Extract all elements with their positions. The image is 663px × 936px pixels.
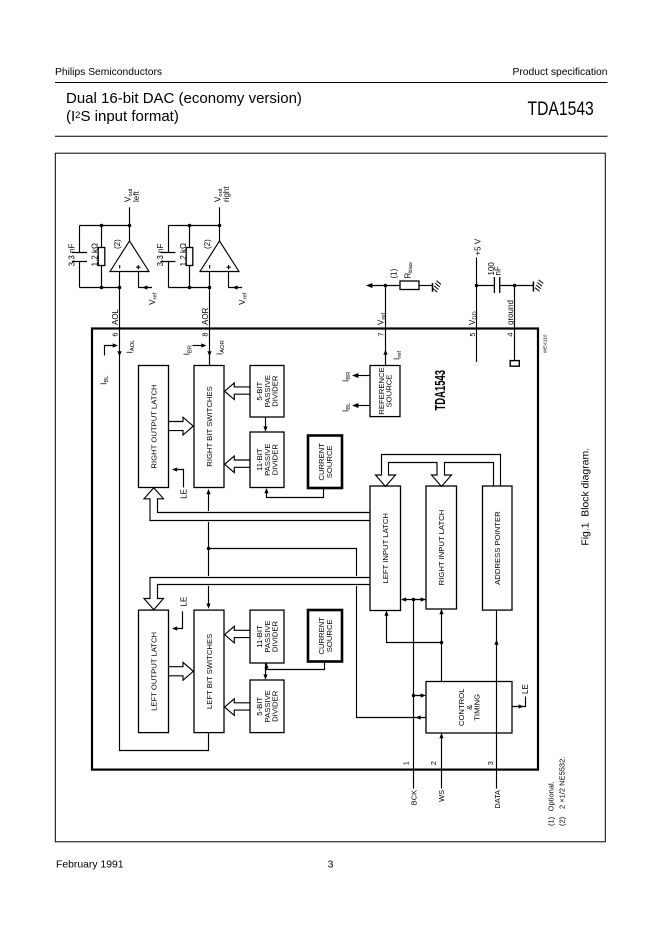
svg-text:RIGHT OUTPUT LATCH: RIGHT OUTPUT LATCH <box>149 384 158 468</box>
op-amp U2 plus sign <box>226 265 230 269</box>
svg-text:(1): (1) <box>390 268 399 278</box>
wire U1 feedback output-side rail <box>80 225 130 227</box>
11-BIT PASSIVE DIVIDER left box <box>250 610 284 663</box>
wire U2 feedback top run with capacitor C2 <box>168 226 170 288</box>
svg-text:Philips Semiconductors: Philips Semiconductors <box>55 67 162 78</box>
wire CURRENT SOURCE left to 11-BIT divider left <box>264 662 324 670</box>
5-BIT PASSIVE DIVIDER right box <box>250 366 284 418</box>
wire CURRENT SOURCE right to 11-BIT divider right <box>264 488 323 498</box>
LEFT OUTPUT LATCH box <box>139 610 169 733</box>
LE hook at RIGHT OUTPUT LATCH <box>172 467 188 498</box>
figure frame <box>55 153 605 842</box>
LEFT INPUT LATCH box <box>370 486 401 611</box>
svg-text:(I2S input format): (I2S input format) <box>66 108 179 125</box>
wire VDD pin 5 to +5V <box>476 258 478 363</box>
svg-text:(2): (2) <box>113 239 122 249</box>
arrow 5-BIT right to 11-BIT right <box>263 417 267 432</box>
arrow into RIGHT INPUT LATCH <box>439 609 443 614</box>
arrow into LEFT BIT SWITCHES <box>206 604 210 609</box>
title rule <box>55 135 608 137</box>
wire U2 output to Vout right <box>219 207 221 241</box>
resistor R1 1.2 kOhm <box>90 226 105 288</box>
wire U2 feedback output-side rail <box>169 225 220 227</box>
junction dot U1 inverting input <box>118 286 122 290</box>
arrow on Vref feed U1 <box>142 285 147 289</box>
bus ADDRESS POINTER to input latches <box>376 455 501 487</box>
op-amp U1 plus sign <box>136 265 140 269</box>
hollow arrow 11-BIT divider left to LEFT BIT SWITCHES <box>225 626 250 643</box>
junction dot BCK latch link <box>412 598 416 602</box>
svg-text:DIVIDER: DIVIDER <box>270 690 279 722</box>
CURRENT SOURCE left box <box>308 610 342 662</box>
11-BIT PASSIVE DIVIDER right box <box>250 432 284 488</box>
wire U2 plus input from Vref <box>229 272 249 305</box>
svg-text:2: 2 <box>429 761 438 765</box>
arrow on AOL wire <box>117 351 121 356</box>
LE hook at LEFT OUTPUT LATCH <box>172 597 188 631</box>
svg-text:3.3 nF: 3.3 nF <box>156 244 165 267</box>
svg-text:nF: nF <box>494 266 503 275</box>
wire VDD branch to decoupling <box>477 285 495 287</box>
junction dot R2 bottom <box>208 286 212 290</box>
external Vref node wire with arrow <box>366 283 400 288</box>
wire U1 output to Vout left <box>129 207 131 241</box>
junction dot R1 bottom <box>100 286 104 290</box>
svg-text:LE: LE <box>179 489 188 499</box>
svg-text:MEA110: MEA110 <box>542 334 548 353</box>
svg-text:LE: LE <box>179 597 188 607</box>
svg-text:AOR: AOR <box>201 307 210 325</box>
arrow on AOR wire <box>207 351 211 356</box>
svg-text:RIGHT BIT SWITCHES: RIGHT BIT SWITCHES <box>205 386 214 466</box>
svg-text:2 ×1/2 NE5532.: 2 ×1/2 NE5532. <box>558 757 567 809</box>
wire below C3 to ground <box>500 285 534 287</box>
op-amp U2 minus sign <box>209 265 211 269</box>
junction dot control-latch <box>440 641 444 645</box>
LE hook at CONTROL <box>512 684 530 708</box>
hollow arrow 11-BIT divider right to RIGHT BIT SWITCHES <box>225 456 250 473</box>
header rule <box>55 82 608 84</box>
svg-text:SOURCE: SOURCE <box>325 445 334 478</box>
IC boundary box TDA1543 <box>92 329 538 770</box>
svg-text:LE: LE <box>521 684 530 694</box>
arrow BCK up into LEFT INPUT LATCH <box>401 597 406 601</box>
svg-text:4: 4 <box>506 332 515 336</box>
RIGHT BIT SWITCHES box <box>194 366 224 488</box>
op-amp U1 minus sign <box>119 265 121 269</box>
wire U1 plus input from Vref <box>139 272 159 305</box>
wire AOR pin 8 line <box>209 272 211 366</box>
IBL arrow from reference source <box>342 402 371 412</box>
arrow Iref <box>383 350 387 355</box>
ground symbol at C3 <box>533 280 543 292</box>
wire BCK pin 1 <box>401 597 426 788</box>
svg-text:DATA: DATA <box>493 790 502 809</box>
arrow out of CONTROL top <box>416 715 421 719</box>
wire ground pin 4 <box>514 286 516 361</box>
substrate box at pin 4 <box>510 361 519 367</box>
svg-text:(2): (2) <box>203 239 212 249</box>
svg-text:WS: WS <box>437 790 446 802</box>
RIGHT INPUT LATCH box <box>426 486 457 609</box>
arrow BCK branch into CONTROL <box>421 693 426 697</box>
junction dot U2 output feedback <box>188 224 192 228</box>
junction dot BCK control branch <box>412 694 416 698</box>
svg-text:LEFT INPUT LATCH: LEFT INPUT LATCH <box>381 513 390 583</box>
arrow into RIGHT BIT SWITCHES <box>206 489 210 494</box>
LEFT BIT SWITCHES box <box>194 610 224 733</box>
hollow arrow 5-BIT divider right to RIGHT BIT SWITCHES <box>225 383 250 400</box>
arrow into LEFT INPUT LATCH <box>384 611 388 616</box>
svg-text:Dual 16-bit DAC (economy versi: Dual 16-bit DAC (economy version) <box>66 90 302 107</box>
capacitor C3 100nF plates <box>494 277 499 293</box>
wire WS pin 2 into CONTROL <box>439 733 443 789</box>
junction dot VDD branch <box>475 284 479 288</box>
svg-text:SOURCE: SOURCE <box>325 619 334 652</box>
svg-text:+5 V: +5 V <box>473 238 482 255</box>
wire Vref pin 7 to reference source with Iref <box>383 286 403 366</box>
wire U1 feedback input-side rail <box>80 287 120 289</box>
svg-text:Product specification: Product specification <box>512 67 607 78</box>
svg-text:TIMING: TIMING <box>472 694 481 721</box>
junction dot R2 top <box>218 224 222 228</box>
IBR injection arrow at pin 8 <box>183 343 207 355</box>
bus LEFT INPUT LATCH to RIGHT OUTPUT LATCH <box>144 488 370 521</box>
svg-text:LEFT OUTPUT LATCH: LEFT OUTPUT LATCH <box>149 632 158 711</box>
op-amp U1 (left channel NE5532) <box>110 239 149 272</box>
resistor Rbias <box>400 262 433 290</box>
RIGHT OUTPUT LATCH box <box>139 366 169 488</box>
capacitor C2 3.3nF plates <box>161 253 176 262</box>
svg-text:AOL: AOL <box>111 308 120 325</box>
svg-text:DIVIDER: DIVIDER <box>270 620 279 652</box>
svg-text:ADDRESS POINTER: ADDRESS POINTER <box>493 511 502 585</box>
svg-text:3: 3 <box>328 859 334 870</box>
arrow 11-BIT left to 5-BIT left <box>263 663 267 680</box>
junction dot on bias link <box>207 547 211 551</box>
wire bit switches bias link <box>206 489 210 609</box>
wire U1 feedback top run with capacitor C1 <box>79 226 81 288</box>
resistor R2 1.2 kOhm <box>179 226 193 288</box>
svg-text:8: 8 <box>201 332 210 336</box>
svg-text:Optional.: Optional. <box>547 781 556 811</box>
arrow BCK down into RIGHT INPUT LATCH <box>421 597 426 601</box>
svg-text:DIVIDER: DIVIDER <box>270 375 279 407</box>
svg-text:1.2 kΩ: 1.2 kΩ <box>90 243 99 266</box>
REFERENCE SOURCE box <box>370 366 400 417</box>
junction dot Vref node <box>384 284 388 288</box>
junction dot U2 inverting input <box>188 286 192 290</box>
wire CONTROL to bit switches link <box>209 549 427 720</box>
IBL injection arrow at pin 6 <box>99 343 118 384</box>
svg-text:LEFT BIT SWITCHES: LEFT BIT SWITCHES <box>205 634 214 709</box>
svg-text:3: 3 <box>486 761 495 765</box>
op-amp U2 (right channel NE5532) <box>200 239 239 272</box>
5-BIT PASSIVE DIVIDER left box <box>250 680 284 733</box>
svg-text:DIVIDER: DIVIDER <box>270 444 279 476</box>
svg-text:BCK: BCK <box>409 790 418 805</box>
svg-text:ground: ground <box>506 300 515 325</box>
ADDRESS POINTER box <box>483 486 513 610</box>
svg-text:TDA1543: TDA1543 <box>432 370 449 411</box>
hollow arrow LEFT OUTPUT LATCH to LEFT BIT SWITCHES <box>169 662 193 680</box>
CURRENT SOURCE right box <box>308 436 342 489</box>
CONTROL & TIMING box <box>426 682 512 734</box>
svg-text:RIGHT INPUT LATCH: RIGHT INPUT LATCH <box>437 510 446 586</box>
svg-text:Fig.1 Block diagram.: Fig.1 Block diagram. <box>581 448 592 546</box>
svg-text:5: 5 <box>468 332 477 336</box>
bus LEFT INPUT LATCH to LEFT OUTPUT LATCH <box>144 578 370 610</box>
ground symbol at Rbias <box>433 281 442 292</box>
svg-text:3.3 nF: 3.3 nF <box>68 244 77 267</box>
junction dot ground branch <box>513 284 517 288</box>
svg-text:left: left <box>132 191 141 202</box>
svg-text:7: 7 <box>377 332 386 336</box>
arrow on Vref feed U2 <box>232 285 237 289</box>
svg-text:1: 1 <box>401 761 410 765</box>
wire AOL pin 6 line <box>120 272 209 751</box>
wire U2 feedback input-side rail <box>169 287 210 289</box>
wire DATA pin 3 to ADDRESS POINTER <box>494 610 498 789</box>
wire CONTROL to input latches <box>384 609 443 682</box>
svg-text:February 1991: February 1991 <box>56 859 124 870</box>
IBR arrow from reference source <box>342 372 371 382</box>
svg-text:right: right <box>222 186 231 202</box>
svg-text:(2): (2) <box>558 816 567 826</box>
arrow on DATA wire <box>494 640 498 645</box>
svg-text:SOURCE: SOURCE <box>385 375 394 408</box>
hollow arrow 5-BIT divider left to LEFT BIT SWITCHES <box>225 699 250 716</box>
svg-text:(1): (1) <box>547 816 556 826</box>
junction dot U1 output feedback <box>128 224 132 228</box>
svg-text:6: 6 <box>110 332 119 336</box>
svg-text:TDA1543: TDA1543 <box>528 99 594 120</box>
capacitor C1 3.3nF plates <box>72 253 87 262</box>
hollow arrow RIGHT OUTPUT LATCH to RIGHT BIT SWITCHES <box>169 417 193 435</box>
junction dot R1 top <box>100 224 104 228</box>
svg-text:1.2 kΩ: 1.2 kΩ <box>179 243 188 266</box>
